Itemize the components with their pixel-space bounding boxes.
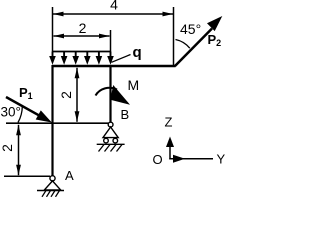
45 degree arc <box>176 40 190 49</box>
svg-text:2: 2 <box>79 20 87 36</box>
moment M arrowhead <box>110 85 130 105</box>
lower beam / reference line <box>6 122 109 124</box>
axes origin corner <box>166 137 213 163</box>
support A pin <box>37 176 64 197</box>
load arrow 1 <box>52 52 54 59</box>
right column member <box>109 65 111 123</box>
force P2 arrow <box>175 29 212 67</box>
dimension line 4 <box>53 13 173 15</box>
force P1 arrow <box>6 97 44 118</box>
svg-text:45°: 45° <box>180 21 201 37</box>
support B roller <box>97 122 125 151</box>
load arrow 6 <box>110 52 112 59</box>
svg-text:B: B <box>121 107 130 122</box>
svg-text:30°: 30° <box>1 105 21 120</box>
svg-text:M: M <box>128 77 140 93</box>
dimension line 2 top <box>54 35 110 37</box>
svg-text:q: q <box>133 44 142 61</box>
svg-text:2: 2 <box>58 91 74 99</box>
svg-text:Z: Z <box>165 115 173 130</box>
left column member <box>51 65 53 176</box>
svg-text:Y: Y <box>217 152 226 167</box>
distributed load q top line <box>52 51 111 53</box>
extension line right of dim 4 (x=173.5) <box>173 7 175 65</box>
top beam member <box>52 65 176 67</box>
load arrow 5 <box>98 52 100 59</box>
extension line bottom left <box>4 175 50 177</box>
30 degree arc <box>18 106 22 123</box>
svg-text:2: 2 <box>0 144 15 152</box>
dimension line 2 left <box>18 125 20 175</box>
leader line from q <box>112 55 131 63</box>
extension line left (x=52.5) <box>52 7 54 52</box>
Z axis <box>169 145 171 159</box>
dimension line 2 middle <box>76 68 78 122</box>
load arrow 3 <box>75 52 77 59</box>
extension line for dim 2 top (x=110.5) <box>110 30 112 52</box>
load arrow 4 <box>86 52 88 59</box>
Y axis <box>169 158 213 160</box>
moment M arc <box>96 88 118 96</box>
svg-text:O: O <box>153 152 163 167</box>
svg-text:4: 4 <box>110 0 118 13</box>
svg-text:A: A <box>65 168 74 183</box>
load arrow 2 <box>63 52 65 59</box>
